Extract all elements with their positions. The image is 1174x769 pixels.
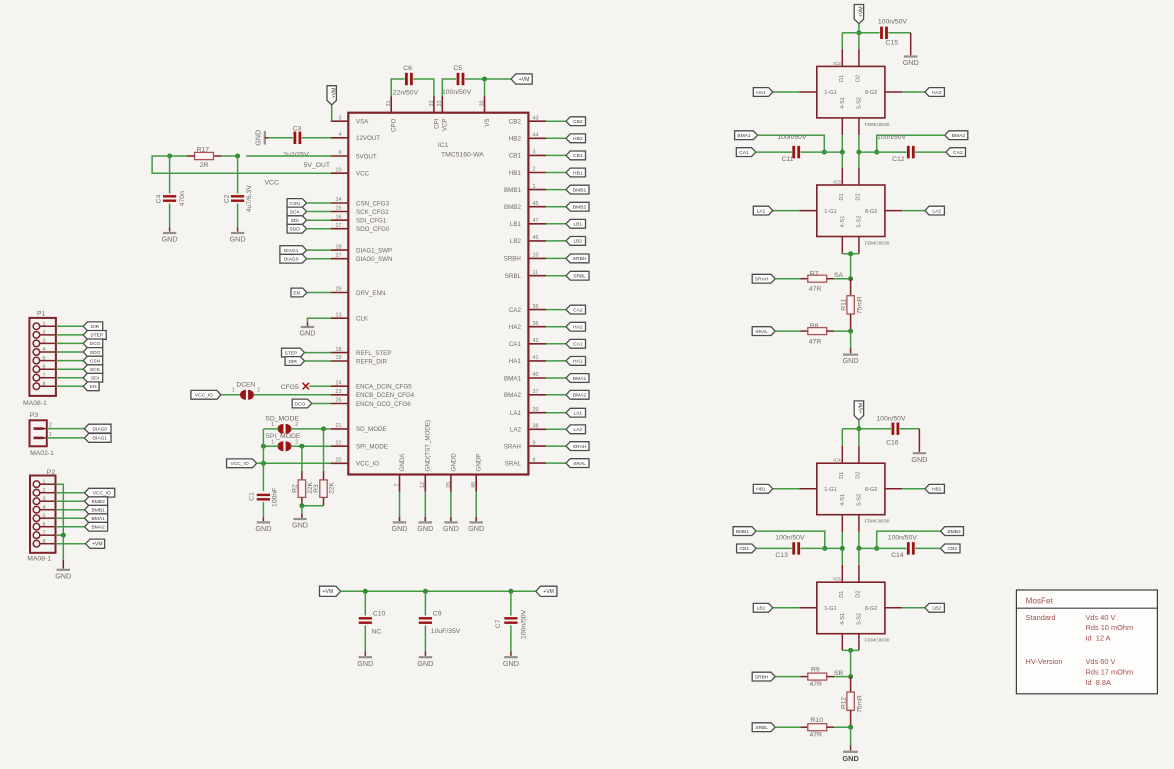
svg-text:23: 23: [336, 389, 342, 395]
svg-text:R10: R10: [810, 717, 823, 724]
IC1 left pin 29 DRV_ENN: [331, 287, 386, 297]
svg-text:13: 13: [336, 312, 342, 318]
svg-text:8: 8: [43, 382, 46, 388]
svg-text:5V_OUT: 5V_OUT: [304, 162, 330, 169]
svg-text:SDI: SDI: [291, 218, 299, 224]
IC1 top pin 32 CPI: [429, 96, 441, 129]
net flag LA1: [753, 206, 773, 215]
svg-text:4-S1: 4-S1: [840, 216, 846, 228]
svg-text:SRAH: SRAH: [755, 277, 769, 283]
IC1 right pin 39 LA1: [510, 407, 546, 417]
net flag CA2: [566, 305, 586, 314]
wire IC5 sources join: [842, 634, 859, 651]
wire CPO to C6: [391, 79, 404, 96]
net flag HB2: [925, 484, 945, 493]
svg-text:GND: GND: [254, 130, 263, 146]
wire SPI_MODE pin2 to IC pin 22: [290, 445, 330, 447]
IC1 right pin 41 HA1: [509, 355, 546, 365]
svg-text:ENCB_DCEN_CFG4: ENCB_DCEN_CFG4: [356, 392, 415, 399]
IC1 right pin 10 SRBH: [504, 253, 546, 263]
net flag STEP: [83, 331, 106, 340]
net flag CA1: [736, 148, 756, 157]
svg-text:1-G1: 1-G1: [824, 487, 836, 493]
svg-text:DCEN: DCEN: [237, 381, 256, 388]
svg-text:20: 20: [336, 458, 342, 464]
capacitor C11 100n/50V: [777, 134, 807, 163]
IC1 left pin 24 ENCA_DCIN_CFG5: [331, 380, 413, 390]
IC1 bottom pin 35 GNDD: [446, 453, 458, 492]
net flag SRBL: [752, 723, 775, 732]
svg-text:1: 1: [533, 184, 536, 190]
net flag CSN: [287, 199, 306, 208]
svg-text:100n/50V: 100n/50V: [775, 535, 805, 542]
svg-text:BMA1: BMA1: [573, 376, 587, 382]
svg-text:GNDP: GNDP: [476, 454, 483, 472]
wire +VM down to node B: [858, 420, 860, 429]
svg-text:27: 27: [336, 253, 342, 259]
IC1 right pin 35 CA2: [509, 304, 546, 314]
net flag DCO: [83, 339, 103, 348]
svg-text:C4: C4: [156, 194, 163, 203]
svg-text:1: 1: [271, 422, 274, 428]
wire VCC_IO to IC pin 20: [257, 462, 331, 464]
IC1 left pin 23 ENCB_DCEN_CFG4: [331, 389, 415, 399]
ground under C1: [257, 521, 270, 523]
svg-text:3: 3: [43, 496, 46, 502]
capacitor C13 100n/50V: [775, 535, 805, 560]
svg-text:LB2: LB2: [573, 239, 582, 245]
wire +VM to D1 of IC4: [842, 429, 859, 464]
svg-text:35: 35: [533, 304, 539, 310]
ground at C15: [904, 55, 917, 57]
node R17 right junction: [235, 154, 240, 159]
net flag BMB2: [941, 527, 964, 536]
svg-text:2u2/25V: 2u2/25V: [283, 151, 309, 158]
svg-text:GND: GND: [392, 524, 408, 533]
wire to net flag HB2: [546, 137, 566, 139]
svg-text:DIAG1_SWP: DIAG1_SWP: [356, 247, 392, 254]
P1 pin 7: [33, 373, 56, 381]
svg-text:D1: D1: [839, 472, 845, 479]
svg-text:18: 18: [336, 347, 342, 353]
wire +VM down to node: [858, 24, 860, 33]
svg-text:C12: C12: [892, 156, 905, 163]
wire SRAL to R8: [775, 330, 800, 332]
svg-text:7: 7: [43, 530, 46, 536]
svg-text:4: 4: [339, 132, 342, 138]
IC1 right pin 11 SRBL: [505, 270, 546, 280]
svg-text:R17: R17: [197, 146, 210, 153]
svg-text:+VM: +VM: [859, 6, 865, 17]
wire +VM to VSA pin: [331, 105, 333, 121]
svg-text:GND: GND: [162, 235, 178, 244]
IC1 right pin 42 CA1: [509, 338, 546, 348]
net flag SDO: [83, 348, 103, 357]
IC1 right pin 45 BMB2: [504, 201, 546, 211]
net flag BMB2: [566, 202, 589, 211]
svg-text:39: 39: [533, 407, 539, 413]
svg-text:CPO: CPO: [391, 118, 398, 132]
wire junction to ground: [301, 506, 303, 518]
svg-text:10: 10: [533, 253, 539, 259]
svg-text:BMA2: BMA2: [952, 133, 966, 139]
wire C14 to phase B2: [859, 547, 907, 549]
wire C5 to +VM node: [465, 78, 511, 80]
wire CLK to ground: [308, 318, 331, 326]
svg-text:SDO: SDO: [90, 350, 101, 356]
svg-text:CSN: CSN: [90, 358, 101, 364]
svg-text:+VM: +VM: [331, 88, 337, 99]
net flag DIAG1: [84, 434, 111, 443]
svg-text:47R: 47R: [809, 286, 822, 293]
svg-text:CLK: CLK: [356, 316, 369, 323]
svg-text:HA2: HA2: [509, 324, 522, 331]
wire SD_MODE pin1 left: [263, 428, 278, 430]
svg-text:8-G2: 8-G2: [865, 606, 877, 612]
svg-text:GND: GND: [911, 455, 927, 464]
svg-text:75mR: 75mR: [856, 296, 863, 314]
svg-text:SRBH: SRBH: [504, 256, 521, 263]
svg-text:VCC: VCC: [356, 171, 370, 178]
node phase B1 junction: [840, 546, 845, 551]
svg-text:7: 7: [43, 373, 46, 379]
svg-text:VCC_IO: VCC_IO: [93, 491, 111, 497]
node SD_MODE-R3 junction: [321, 426, 326, 431]
wire VCP to C5: [442, 79, 456, 96]
svg-text:SRAH: SRAH: [504, 443, 521, 450]
svg-text:CB1: CB1: [740, 546, 750, 552]
net flag SRAH: [752, 274, 775, 283]
IC1 left pin 3 VSA: [331, 115, 370, 125]
svg-text:CSN: CSN: [290, 201, 301, 207]
net flag SRBL: [566, 271, 589, 280]
net flag CA2: [946, 148, 966, 157]
svg-text:SRBL: SRBL: [573, 274, 586, 280]
IC1 right pin 1 BMB1: [504, 184, 546, 194]
svg-text:HA2: HA2: [573, 325, 583, 331]
node VS junction: [482, 77, 487, 82]
resistor R8 47R: [800, 323, 834, 346]
svg-text:CA2: CA2: [509, 307, 522, 314]
supply flag +VM top: [511, 74, 532, 84]
wire to net flag HA2: [546, 326, 566, 328]
svg-text:R9: R9: [811, 667, 820, 674]
IC1 right pin 9 SRAH: [504, 440, 546, 450]
svg-text:REFR_DIR: REFR_DIR: [356, 358, 387, 365]
net flag VCC_IO lower: [227, 459, 257, 468]
wire CA2 to C12: [915, 151, 946, 153]
wire SPI_MODE pin1 left: [263, 445, 278, 447]
wire R2 R3 commons to ground: [302, 498, 324, 506]
wire SRBL to R10: [775, 726, 800, 728]
svg-text:CPI: CPI: [433, 118, 440, 129]
svg-text:CA1: CA1: [739, 150, 749, 156]
svg-text:100n/50V: 100n/50V: [877, 134, 907, 141]
svg-text:BMA1: BMA1: [737, 133, 751, 139]
wire SD_MODE pin2 to IC pin 21: [290, 428, 330, 430]
IC1 left pin 10 VCC: [331, 167, 370, 177]
ground under C4: [163, 232, 176, 234]
node R2-R3 junction: [299, 503, 304, 508]
svg-text:FDMC8030: FDMC8030: [865, 638, 890, 644]
IC1 right pin 36 HA2: [509, 321, 546, 331]
svg-text:DIR: DIR: [91, 324, 100, 330]
svg-text:SDO: SDO: [289, 227, 300, 233]
capacitor C5: [442, 65, 472, 96]
svg-text:4: 4: [43, 347, 46, 353]
wire P2 gnd rail down: [62, 535, 64, 568]
svg-text:LA2: LA2: [932, 208, 941, 214]
svg-text:LB1: LB1: [757, 606, 766, 612]
wire P1 pin 8 to EN: [56, 385, 83, 387]
svg-text:R7: R7: [810, 271, 819, 278]
wire CA1 to C11: [756, 151, 792, 153]
svg-text:33: 33: [437, 101, 443, 107]
svg-text:BMA2: BMA2: [504, 392, 521, 399]
wire vertical to C1: [262, 463, 264, 491]
wire P2 pin3 to BMB2: [56, 500, 85, 502]
svg-text:Vds 40 V: Vds 40 V: [1086, 613, 1116, 622]
svg-text:C14: C14: [891, 552, 904, 559]
solder jumper SPI_MODE: [271, 439, 298, 451]
wire node to C15: [859, 32, 880, 34]
wire gate HB2: [885, 488, 925, 490]
wire P3 pin 2 to DIAG0: [47, 428, 85, 430]
svg-text:11: 11: [533, 270, 539, 276]
net flag DIAG1: [280, 246, 307, 255]
svg-text:CA1: CA1: [509, 341, 522, 348]
svg-text:SRBL: SRBL: [755, 725, 768, 731]
net flag BMB1 at P2: [85, 505, 108, 514]
svg-text:47R: 47R: [809, 339, 822, 346]
svg-text:IC2: IC2: [833, 61, 841, 67]
svg-text:8: 8: [43, 539, 46, 545]
svg-text:BMB1: BMB1: [504, 187, 521, 194]
svg-text:BMB1: BMB1: [573, 187, 587, 193]
svg-text:DRV_ENN: DRV_ENN: [356, 290, 385, 297]
svg-text:HV-Version: HV-Version: [1026, 657, 1063, 666]
IC1 top pin 33 VCP: [437, 96, 449, 131]
wire P2 pin4 to BMB1: [56, 509, 85, 511]
svg-text:DIR: DIR: [288, 359, 297, 365]
wire phase B1 to IC5 D1: [841, 548, 843, 582]
wire SRBH to R9: [775, 676, 800, 678]
IC1 top pin 30 VS: [479, 96, 491, 127]
P2 pin 6: [33, 522, 55, 530]
net flag CSN: [83, 356, 103, 365]
svg-text:44: 44: [533, 133, 539, 139]
svg-text:HB1: HB1: [756, 487, 766, 493]
capacitor C12 100n/50V: [877, 134, 915, 163]
svg-text:VS: VS: [484, 119, 491, 127]
net flag SDI: [83, 373, 103, 382]
svg-text:CB2: CB2: [509, 119, 522, 126]
svg-text:FDMC8030: FDMC8030: [865, 241, 890, 247]
wire to net flag CA1: [546, 343, 566, 345]
supply flag +VM at VSA: [327, 86, 336, 105]
svg-text:BMB2: BMB2: [573, 205, 587, 211]
wire DCO to ENCN pin: [312, 403, 331, 405]
IC1 left pin 27 DIAG0_SWN: [331, 253, 393, 263]
svg-text:DIAG0_SWN: DIAG0_SWN: [356, 256, 392, 263]
node SA junction: [848, 276, 853, 281]
net flag CA1: [566, 339, 586, 348]
IC1 right pin 43 CB2: [509, 115, 546, 125]
ground under P2: [57, 569, 70, 571]
wire C13 to phase B1: [801, 547, 843, 549]
wire P1 pin 3 to DCO: [56, 342, 83, 344]
svg-text:P2: P2: [47, 469, 56, 476]
svg-text:HB1: HB1: [509, 170, 522, 177]
IC1 bottom pin 12 GND(TST_MODE): [420, 420, 432, 492]
wire C6 to CPI: [413, 79, 434, 96]
svg-text:BMA2: BMA2: [92, 525, 106, 531]
net flag BMA1: [735, 131, 758, 140]
wire P1 pin 2 to STEP: [56, 334, 83, 336]
P1 pin 4: [33, 347, 56, 355]
wire IC4 S1 down: [841, 515, 843, 549]
wire IC2 S1 down: [841, 118, 843, 152]
wire R9 to SB node: [834, 670, 851, 677]
supply flag +VM bottom rail left: [320, 586, 341, 596]
wire junction to VS pin: [484, 79, 486, 96]
svg-text:CA1: CA1: [573, 342, 583, 348]
wire gate HA1: [773, 91, 817, 93]
svg-text:6: 6: [339, 150, 342, 156]
IC1 left pin 6 5VOUT: [331, 150, 377, 160]
IC1 right pin 47 LB1: [510, 218, 546, 228]
wire sources to SA node: [850, 254, 852, 279]
solder jumper SD_MODE: [271, 422, 298, 434]
svg-text:36: 36: [533, 321, 539, 327]
svg-text:C13: C13: [775, 552, 788, 559]
svg-text:12VOUT: 12VOUT: [356, 135, 380, 142]
svg-text:VCC_IO: VCC_IO: [356, 461, 379, 468]
net flag SCK: [287, 207, 306, 216]
svg-text:HA1: HA1: [756, 90, 766, 96]
wire node to ground A: [850, 331, 852, 353]
ground under C9: [419, 656, 432, 658]
svg-text:2R: 2R: [200, 162, 209, 169]
svg-text:17: 17: [336, 223, 342, 229]
wire C3 to 12VOUT pin: [302, 137, 331, 139]
IC1 left pin 22 SPI_MODE: [331, 440, 388, 450]
wire P3 pin 1 to DIAG1: [47, 437, 85, 439]
wire CSN to pin: [307, 202, 331, 204]
svg-text:Rds 17 mOhm: Rds 17 mOhm: [1086, 668, 1134, 677]
svg-text:47: 47: [533, 218, 539, 224]
svg-text:STEP: STEP: [285, 350, 298, 356]
ground under C2: [231, 232, 244, 234]
svg-text:LA1: LA1: [510, 410, 522, 417]
svg-text:DIAG0: DIAG0: [92, 426, 107, 432]
P1 pin 6: [33, 364, 56, 372]
svg-text:BMA1: BMA1: [92, 516, 106, 522]
svg-text:100n/50V: 100n/50V: [878, 18, 908, 25]
wire C16 to ground: [900, 429, 920, 452]
wire node to ground B: [850, 727, 852, 750]
wire 5VOUT net 5V_OUT: [246, 156, 331, 169]
svg-text:1: 1: [271, 439, 274, 445]
svg-text:29: 29: [336, 287, 342, 293]
svg-text:C16: C16: [886, 440, 899, 447]
net flag DIAG0: [280, 254, 307, 263]
svg-text:MA02-1: MA02-1: [30, 450, 54, 457]
svg-text:CB2: CB2: [948, 546, 958, 552]
svg-text:19: 19: [336, 355, 342, 361]
capacitor C2 4u7/6,3V: [224, 156, 253, 232]
wire sources to SB node: [850, 650, 852, 676]
wire DCEN pin 2 to ENCB pin: [253, 394, 331, 396]
wire P2 pin8 to +VM: [56, 543, 86, 545]
wire gate LA1: [773, 210, 817, 212]
net flag HB2: [566, 134, 586, 143]
wire vertical jumper common: [262, 429, 264, 463]
IC1 left pin 16 SDI_CFG1: [331, 214, 387, 224]
svg-text:9: 9: [533, 440, 536, 446]
svg-text:SA: SA: [834, 272, 844, 279]
svg-text:4-S1: 4-S1: [840, 494, 846, 506]
wire IC2 S2 down: [858, 118, 860, 152]
wire to net flag SRBH: [546, 257, 566, 259]
IC1 left pin 14 CSN_CFG3: [331, 197, 390, 207]
svg-text:SRBL: SRBL: [505, 273, 522, 280]
net flag CB1: [737, 544, 757, 553]
svg-text:IC5: IC5: [833, 577, 841, 583]
wire IC3 sources join: [842, 237, 859, 254]
svg-text:BMB2: BMB2: [504, 204, 521, 211]
IC1 left pin 26 ENCN_DCO_CFG6: [331, 398, 412, 408]
svg-text:5-S2: 5-S2: [856, 216, 862, 228]
capacitor C7 100n/50V: [495, 591, 528, 656]
svg-text:DIAG1: DIAG1: [92, 436, 107, 442]
wire DIAG1 to pin: [307, 249, 331, 251]
svg-text:HA1: HA1: [573, 359, 583, 365]
net flag BMA2 at P2: [85, 522, 108, 531]
net flag SDO: [287, 224, 306, 233]
svg-text:5: 5: [43, 513, 46, 519]
svg-text:3: 3: [43, 339, 46, 345]
svg-text:GND: GND: [55, 571, 71, 580]
wire to net flag BMB2: [546, 206, 566, 208]
svg-text:8: 8: [533, 457, 536, 463]
ground bar at C3 (rotated): [254, 130, 265, 146]
wire to net flag CA2: [546, 309, 566, 311]
svg-text:LB1: LB1: [510, 221, 522, 228]
svg-text:100n/50V: 100n/50V: [888, 535, 918, 542]
svg-text:28: 28: [336, 244, 342, 250]
svg-text:D2: D2: [855, 591, 861, 598]
svg-text:4-S1: 4-S1: [840, 97, 846, 109]
svg-text:CSN_CFG3: CSN_CFG3: [356, 200, 390, 207]
wire C12 to phase A2: [859, 151, 907, 153]
svg-text:R8: R8: [810, 323, 819, 330]
svg-text:5-S2: 5-S2: [856, 494, 862, 506]
IC1 left pin 19 REFR_DIR: [331, 355, 388, 365]
connector P1 MA08-1: [23, 311, 56, 408]
svg-text:SRAL: SRAL: [505, 460, 522, 467]
net flag SRBH: [752, 672, 775, 681]
wire BMB1 to phase B1: [756, 531, 825, 548]
svg-text:VCC_IO: VCC_IO: [195, 393, 213, 399]
wire node to C16: [859, 428, 891, 430]
supply flag +VM at P2: [86, 539, 105, 548]
svg-text:VCC_IO: VCC_IO: [230, 461, 248, 467]
net flag HB1: [753, 484, 773, 493]
svg-text:FDMC8030: FDMC8030: [865, 122, 890, 128]
IC1 bottom pin 7 GNDA: [394, 453, 406, 492]
svg-text:1: 1: [232, 387, 235, 393]
